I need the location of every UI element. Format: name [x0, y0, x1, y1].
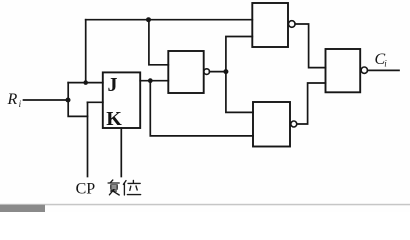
wire G1 output to G4 upper input [295, 24, 325, 68]
svg-text:K: K [106, 108, 122, 130]
wire K input row [88, 101, 103, 103]
node E (G2 output junction) [223, 69, 228, 74]
gate G4 output bubble [361, 67, 367, 73]
wire node A down branch [68, 100, 87, 116]
svg-text:CP: CP [76, 180, 96, 197]
flip-flop U1 (JK) [103, 72, 140, 128]
gate G2 output bubble [204, 69, 210, 75]
svg-text:J: J [108, 74, 118, 96]
wire node E up to G1 lower input [226, 37, 252, 72]
wire node C down to G2 upper input [149, 20, 168, 65]
label Ri [7, 91, 22, 109]
wire Ci output [368, 69, 400, 71]
node C (top line junction) [146, 17, 151, 22]
gate G3 (bottom NAND) [253, 102, 290, 147]
svg-text:R: R [7, 91, 18, 108]
label Ci [375, 51, 388, 69]
gate G1 (top NAND) [252, 3, 288, 47]
gate G1 output bubble [289, 21, 296, 28]
gate G2 (middle inverter) [168, 51, 203, 93]
svg-text:i: i [384, 59, 387, 69]
wire reset vertical [120, 128, 122, 177]
wire CP vertical [87, 102, 89, 176]
gate G3 output bubble [291, 121, 297, 127]
scan artifact: bottom rule [0, 204, 410, 206]
node D (Q branch junction) [148, 78, 153, 83]
node A (Ri junction) [66, 98, 71, 103]
scan artifact: bottom-left dark bar [0, 205, 45, 212]
wire node D down and across to G3 lower input [150, 81, 253, 136]
wire node E down to G3 upper input [226, 72, 253, 113]
label 复位 (reset), drawn strokes [108, 180, 141, 195]
wire G2 output to node E [210, 71, 226, 73]
wire J input row [68, 82, 103, 84]
wire node A up to J row [67, 83, 69, 100]
gate G4 (output NAND) [326, 49, 361, 92]
svg-text:i: i [19, 99, 22, 109]
wire G3 output to G4 lower input [297, 83, 326, 124]
wire top feedback line [86, 19, 253, 21]
node B (J row / feedback junction) [83, 80, 88, 85]
wire Q output row to G2 lower input [140, 80, 168, 82]
wire Ri input [24, 99, 67, 101]
wire feedback vertical up [85, 20, 87, 83]
